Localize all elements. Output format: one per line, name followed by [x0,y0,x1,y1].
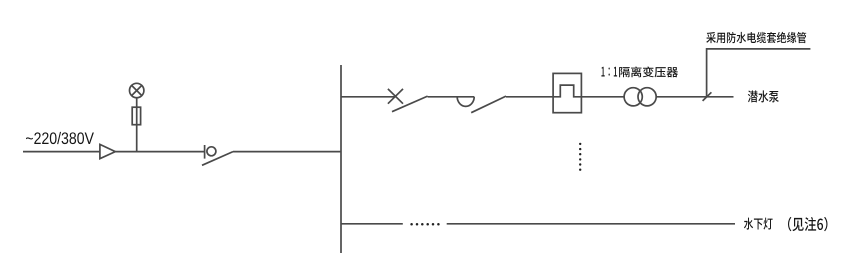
label: supply voltage ~220/380V [26,132,94,144]
contactor KM (semicircular arc) [457,97,474,107]
wire: switch to busbar [233,151,341,153]
indicator lamp HL (circle with cross) [130,83,144,97]
thermal overload relay KH (box with heater bump) [553,73,581,112]
ellipsis dots (repeated circuits, vertical) [579,143,581,171]
isolation transformer T1 (two overlapping circles) [624,88,656,106]
load label: 潜水泵 [748,90,779,102]
cable tick (oblique mark) [703,92,712,101]
leader line for cable note [707,49,811,97]
wire: incoming supply line [23,151,100,153]
breaker blade [392,96,428,112]
wire: busbar to breaker [341,96,396,98]
supply arrow (incoming feed triangle) [100,144,115,158]
note: 采用防水电缆套绝缘管 [706,32,806,43]
wire: contactor to thermal relay [506,96,553,98]
wire: thermal relay to transformer [581,96,624,98]
dotted wire segment (break dots) [410,223,439,226]
contactor blade [471,96,506,113]
switch QS1 (knife switch with pivot circle) [202,145,233,165]
circuit breaker QF (cross mark) [388,89,403,104]
note: (见注6) [788,217,828,231]
load label: 水下灯 [744,218,773,230]
wire: transformer to pump [656,96,733,98]
wire: dotted break to light [447,223,735,225]
fuse FU (rectangle) [132,107,140,125]
label: 1∶1隔离变压器 [601,67,678,78]
wire: arrow to switch [115,151,204,153]
busbar (vertical) [340,65,342,253]
wire: busbar to dotted break [341,223,403,225]
wire: lamp/fuse branch (vertical) [136,98,138,152]
wire: breaker to contactor [428,96,475,98]
